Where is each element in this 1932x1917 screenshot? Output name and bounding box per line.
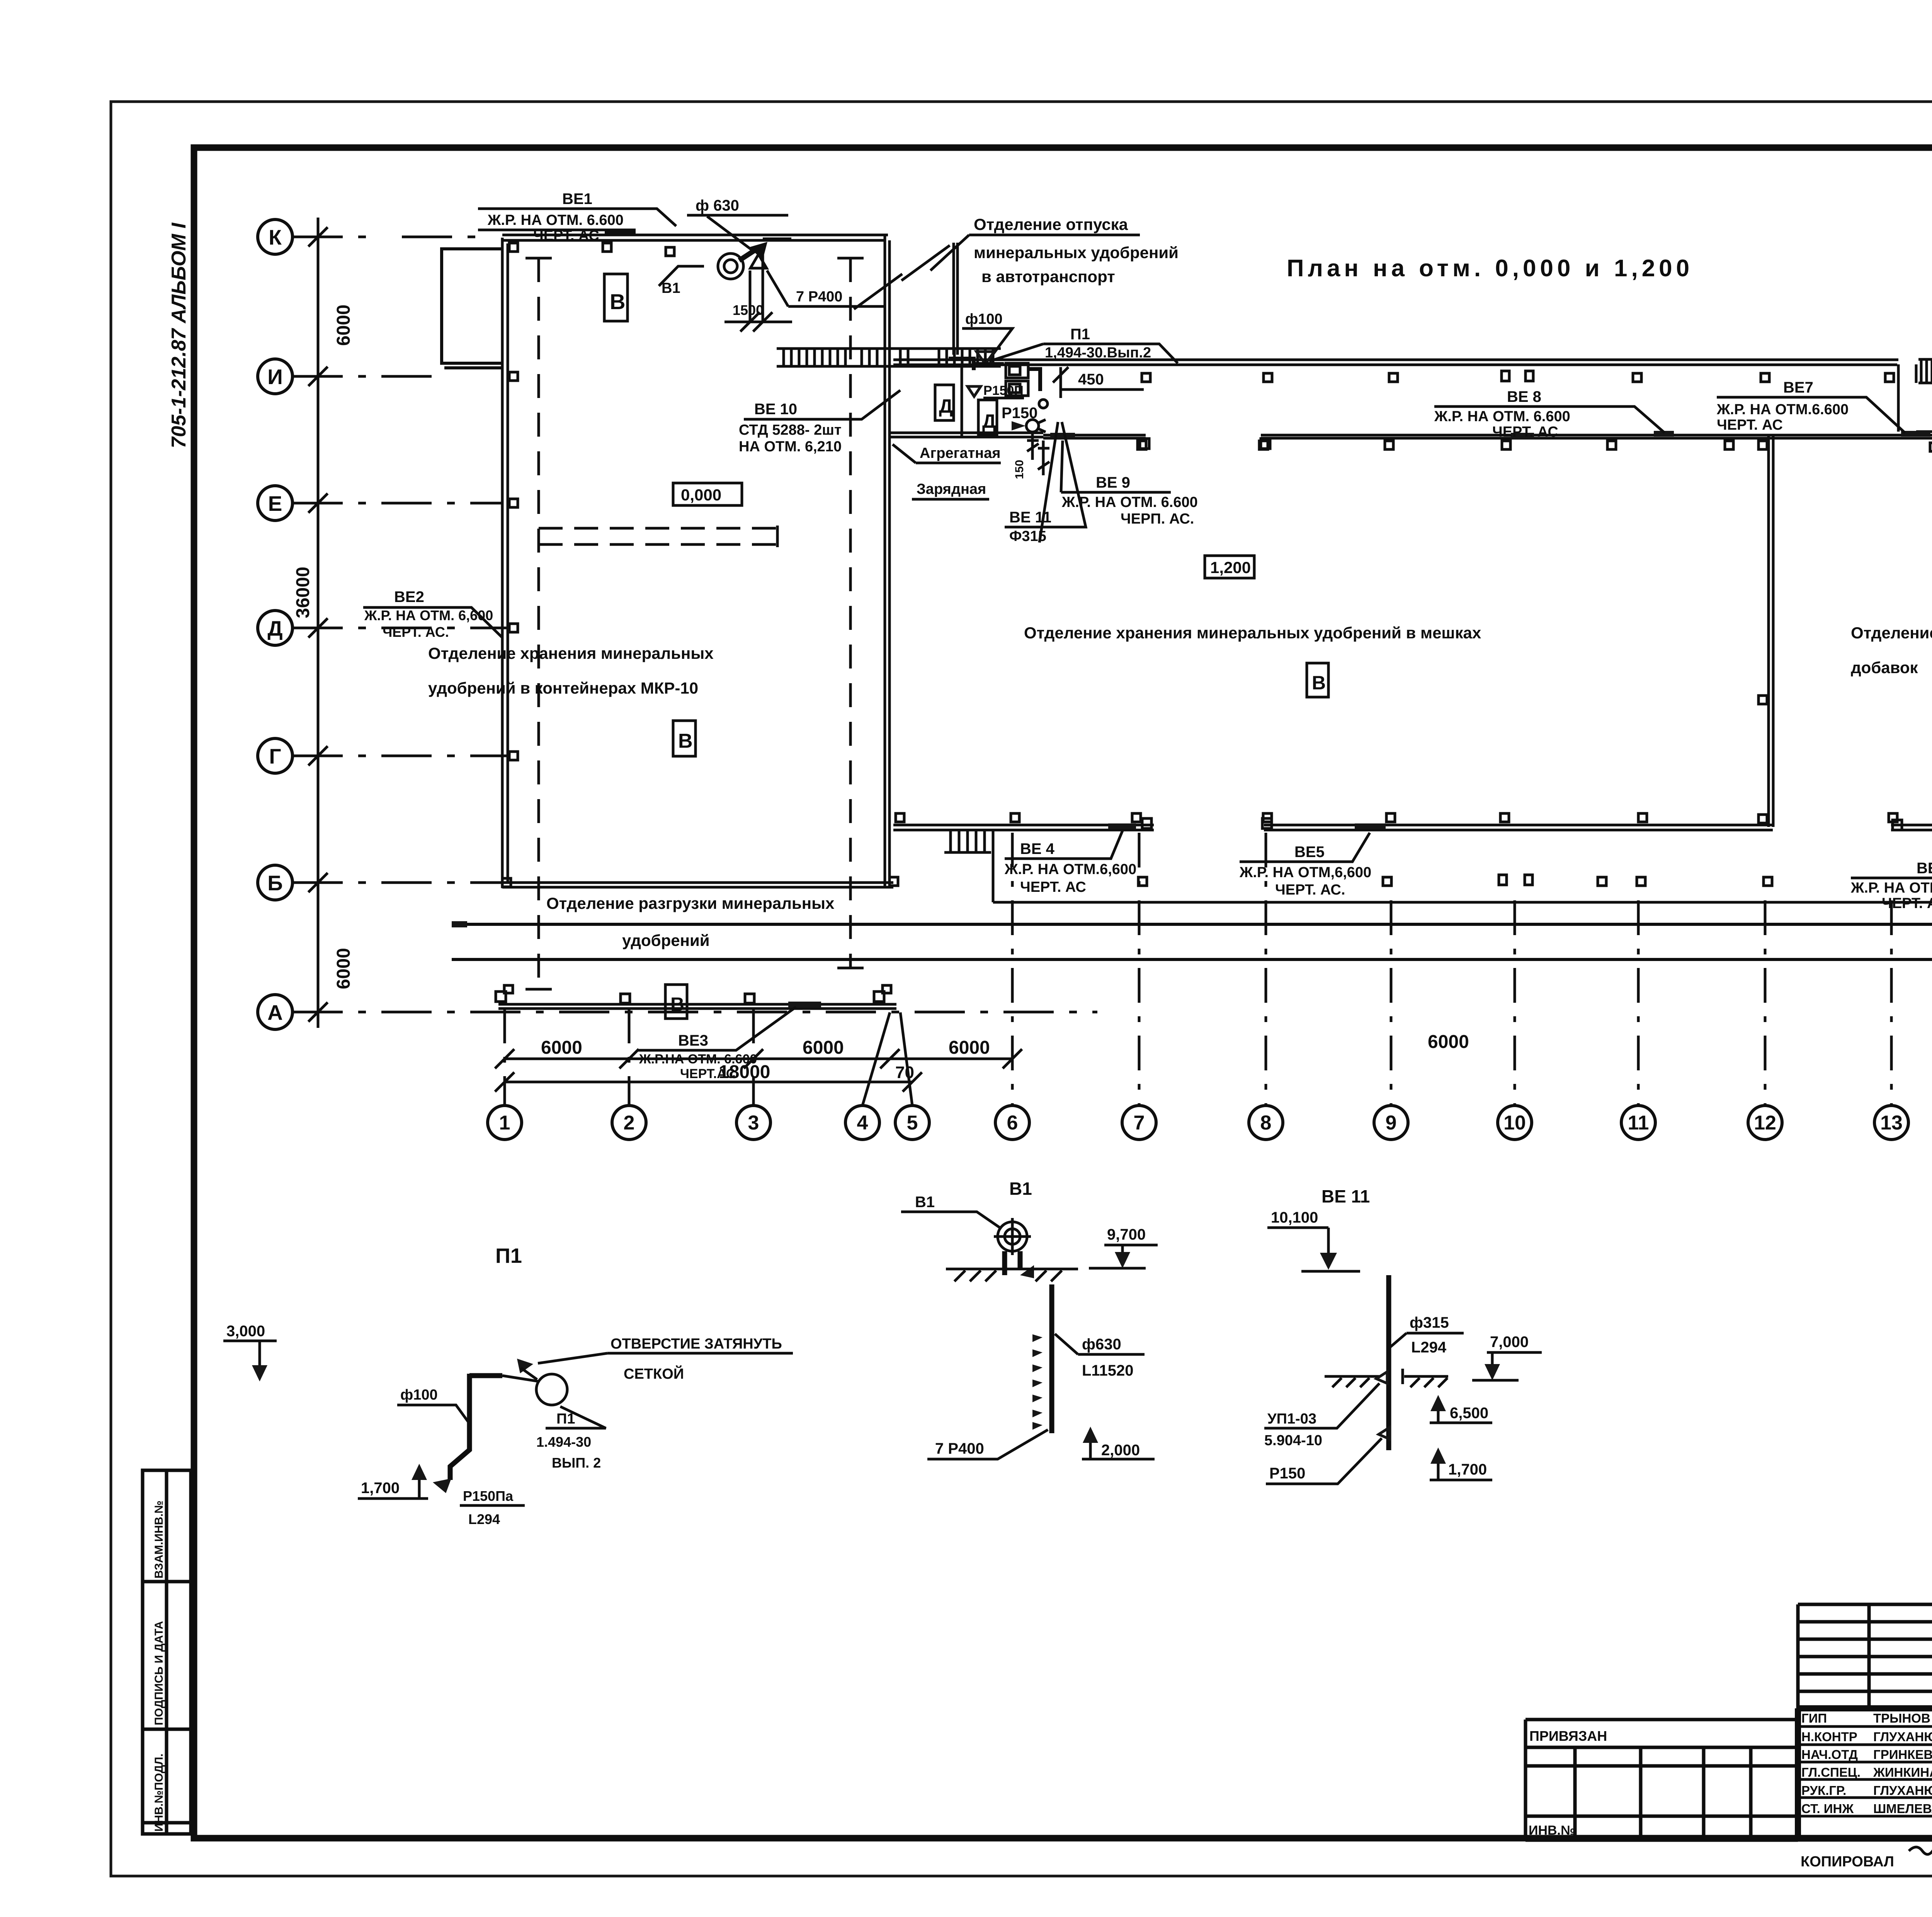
door end columns [1140,439,1149,449]
svg-text:8: 8 [1260,1112,1272,1134]
svg-text:5: 5 [907,1112,918,1134]
dashed gate line 1 [537,258,540,989]
svg-text:ЧЕРТ. АС.: ЧЕРТ. АС. [383,624,449,640]
axis line A [293,1011,1097,1014]
svg-text:Д: Д [267,616,282,640]
svg-text:К: К [269,225,282,249]
lower platform edge [993,830,1932,902]
label R150 [1266,1427,1389,1484]
svg-text:П1: П1 [495,1244,522,1267]
dashed gate line 2 [849,258,852,968]
svg-text:9,700: 9,700 [1107,1226,1146,1243]
bottom dim line 2 [505,1081,1932,1084]
axis leader lines 4,5 converge [862,1012,912,1106]
svg-text:3: 3 [748,1112,759,1134]
platform columns [1138,441,1146,449]
svg-text:7: 7 [1134,1112,1145,1134]
roof fan symbol [994,1218,1034,1278]
canopy grille BE3 [788,1002,821,1008]
svg-text:ИНВ.№: ИНВ.№ [1529,1823,1575,1838]
svg-text:ВЕ2: ВЕ2 [394,589,424,606]
label B box (bags) [1307,663,1328,697]
svg-text:Р150П: Р150П [983,383,1024,398]
label B box (dispensing top) [604,274,628,321]
svg-text:6: 6 [1007,1112,1018,1134]
svg-text:ф630: ф630 [1082,1336,1121,1353]
elevation 7.000 [1472,1334,1542,1380]
duct P1 [450,1374,502,1480]
axis circle E [258,486,293,520]
axis circle G [258,738,293,773]
svg-text:ЧЕРТ. АС: ЧЕРТ. АС [1492,424,1558,440]
label BE2 [363,589,502,640]
svg-text:В: В [610,289,625,314]
svg-text:1,200: 1,200 [1210,558,1251,577]
east wall left block [885,235,889,887]
svg-text:ЧЕРТ.АС: ЧЕРТ.АС [680,1067,735,1081]
svg-text:3,000: 3,000 [226,1323,265,1340]
label BE5 [1239,833,1371,898]
svg-text:7,000: 7,000 [1490,1334,1529,1351]
DETAIL P1 [223,1244,793,1527]
svg-text:ЖИНКИНА: ЖИНКИНА [1873,1765,1932,1779]
svg-text:Ж.Р. НА ОТМ. 6,600: Ж.Р. НА ОТМ. 6,600 [364,607,493,623]
ground hatch left [1325,1376,1380,1387]
svg-text:Отделение отпуска: Отделение отпуска [974,215,1128,233]
svg-text:ВЕ 4: ВЕ 4 [1020,840,1055,857]
svg-text:ЧЕРТ. АС.: ЧЕРТ. АС. [1275,882,1345,898]
svg-text:минеральных удобрений: минеральных удобрений [974,243,1179,262]
svg-text:НА ОТМ. 6,210: НА ОТМ. 6,210 [739,439,842,455]
elevation 2.000 [1082,1427,1155,1459]
axis circle I [258,359,293,394]
stairs hatch bottom [944,830,991,852]
svg-text:5.904-10: 5.904-10 [1264,1432,1322,1449]
inner thick frame [194,148,1932,1838]
svg-text:7 Р400: 7 Р400 [935,1440,984,1457]
elevation 3.000 [223,1323,277,1381]
rail line 1 [452,923,1932,926]
svg-text:ВЕ7: ВЕ7 [1783,379,1813,396]
svg-text:СЕТКОЙ: СЕТКОЙ [624,1365,684,1382]
label f630 L11520 [1055,1334,1145,1379]
svg-text:ф315: ф315 [1410,1314,1449,1331]
west annex notch [442,249,502,368]
svg-text:Отделение хранения минеральн: Отделение хранения минеральных удобрений… [1024,624,1481,642]
valve circle [1039,400,1048,408]
axis circle A [258,995,293,1029]
svg-text:70: 70 [895,1063,914,1082]
svg-text:В: В [678,730,693,752]
main block rows [1798,1726,1932,1816]
label f100 detail [397,1387,468,1422]
svg-text:удобрений: удобрений [622,931,710,949]
bottom wall columns below [889,877,898,886]
svg-text:добавок: добавок [1851,658,1918,677]
svg-text:СТД 5288- 2шт: СТД 5288- 2шт [739,422,842,438]
partition columns [1759,441,1767,449]
svg-text:1,700: 1,700 [1448,1461,1487,1478]
right overhang [1916,383,1932,432]
small fan symbol [1012,420,1046,432]
fan V1 plan symbol [659,239,792,332]
svg-text:ЧЕРТ. АС: ЧЕРТ. АС [1882,895,1932,912]
label Agregatnaya [893,444,1001,499]
top wall main hall [893,360,1898,365]
elevation 9.700 [1089,1226,1158,1268]
vent unit boxes [1006,363,1028,378]
svg-text:В1: В1 [1009,1179,1032,1199]
svg-text:705-1-212.87 АЛЬБОМ I: 705-1-212.87 АЛЬБОМ I [168,222,190,448]
axis circle B(left) [258,865,293,900]
svg-text:ЧЕРТ. АС: ЧЕРТ. АС [1717,417,1783,433]
upper revision table [1798,1604,1932,1839]
svg-text:НАЧ.ОТД: НАЧ.ОТД [1801,1747,1858,1762]
svg-text:РУК.ГР.: РУК.ГР. [1801,1783,1846,1798]
svg-text:Д: Д [982,410,996,432]
svg-text:В1: В1 [915,1194,935,1211]
axis circle K [258,219,293,254]
label BE7 [1716,379,1905,433]
names column [1873,1711,1932,1816]
bottom wall main hall [893,825,1932,830]
label BE1 [478,191,676,244]
svg-text:КОПИРОВАЛ: КОПИРОВАЛ [1801,1854,1894,1870]
thick duct strokes [949,359,1040,391]
LEFT AXES [258,218,1097,1029]
svg-text:Г: Г [269,744,281,768]
ground line V1 [946,1269,1078,1281]
intake flag [517,1359,533,1373]
label R150Pa [460,1488,525,1527]
outlet flag [433,1478,451,1493]
ground hatch right [1403,1369,1448,1387]
svg-text:В: В [670,993,684,1015]
svg-text:ГЛ.СПЕЦ.: ГЛ.СПЕЦ. [1801,1765,1861,1779]
svg-text:Ж.Р.НА ОТМ. 6.600: Ж.Р.НА ОТМ. 6.600 [639,1052,757,1067]
svg-text:ПОДПИСЬ И ДАТА: ПОДПИСЬ И ДАТА [153,1621,165,1725]
west wall left block [502,238,508,886]
axis line I [293,375,440,378]
stairs hatch top center [777,349,1001,366]
left dimension line [317,218,320,1028]
svg-text:1: 1 [499,1112,510,1134]
svg-text:36000: 36000 [293,567,313,618]
label BE6 [1850,834,1932,912]
svg-text:ШМЕЛЕВА: ШМЕЛЕВА [1873,1801,1932,1816]
svg-text:7 Р400: 7 Р400 [796,289,842,305]
label BE4 [1004,831,1136,895]
platform edge line [1043,435,1932,438]
label BE10 [739,390,900,455]
svg-text:ЧЕРП. АС.: ЧЕРП. АС. [1121,511,1194,527]
left wall columns [509,243,518,252]
svg-text:1.494-30: 1.494-30 [536,1434,591,1450]
svg-text:ИНВ.№ПОДЛ.: ИНВ.№ПОДЛ. [153,1754,165,1832]
svg-text:1,700: 1,700 [361,1480,400,1497]
MACHINERY CLUSTER [889,359,1049,479]
svg-text:ПРИВЯЗАН: ПРИВЯЗАН [1529,1728,1607,1744]
svg-text:Отделение хранения минеральных: Отделение хранения минеральных [428,644,714,662]
label B box (left block) [673,721,696,756]
svg-text:ВЕ3: ВЕ3 [678,1032,708,1049]
overhang stairs hatch [1918,359,1932,383]
wall grilles (vent louvres) [452,431,1932,927]
svg-text:6000: 6000 [333,948,354,989]
label 7R400 [927,1430,1048,1459]
svg-text:П1: П1 [1070,326,1090,343]
svg-text:Б: Б [267,871,283,895]
middle vertical wall [954,243,957,355]
svg-text:Ж.Р. НА ОТМ. 6.600: Ж.Р. НА ОТМ. 6.600 [1850,880,1932,896]
svg-text:ф 630: ф 630 [696,197,739,214]
label f315 L294 [1390,1314,1464,1356]
left attachment strip boxes [143,1470,191,1834]
svg-text:В1: В1 [662,280,680,296]
leader label V1 [901,1194,1002,1229]
svg-text:L11520: L11520 [1082,1362,1133,1379]
svg-text:И: И [267,365,283,389]
svg-text:6000: 6000 [803,1038,844,1058]
svg-text:ГЛУХАНЮК: ГЛУХАНЮК [1873,1730,1932,1744]
svg-text:удобрений в контейнерах МКР-10: удобрений в контейнерах МКР-10 [428,679,698,697]
svg-text:ВЕ5: ВЕ5 [1294,844,1325,861]
svg-text:ВЗАМ.ИНВ.№: ВЗАМ.ИНВ.№ [153,1500,165,1579]
roles column [1801,1711,1861,1816]
svg-text:Р150: Р150 [1269,1465,1305,1482]
canopy at axis A [498,1004,896,1009]
svg-text:ТРЫНОВ: ТРЫНОВ [1873,1711,1930,1725]
DETAIL V1 [901,1179,1158,1459]
top wall columns [603,243,611,252]
svg-text:0,000: 0,000 [681,486,721,504]
D box 2 [978,400,997,435]
top wall left block [502,235,888,240]
label otverstie [538,1336,793,1382]
svg-text:Н.КОНТР: Н.КОНТР [1801,1730,1857,1744]
svg-text:Ж.Р. НА ОТМ,6,600: Ж.Р. НА ОТМ,6,600 [1239,864,1371,881]
svg-text:ВЕ1: ВЕ1 [562,191,592,208]
label 450 [1053,367,1144,398]
svg-text:L294: L294 [468,1511,500,1527]
svg-text:ОТВЕРСТИЕ ЗАТЯНУТЬ: ОТВЕРСТИЕ ЗАТЯНУТЬ [611,1336,782,1352]
svg-text:ВЕ 8: ВЕ 8 [1507,388,1541,405]
COLUMN SQUARES [502,243,1932,887]
label storage MKR-10 [428,644,714,697]
label BE11 plan [1005,422,1086,544]
dim ticks [308,227,328,1022]
label R150P [968,383,1024,398]
riser tick [1027,433,1039,460]
svg-text:А: А [267,1000,283,1024]
break diagonal marks [854,245,950,309]
label dispensing dept [930,215,1179,286]
svg-text:1,494-30.Вып.2: 1,494-30.Вып.2 [1045,345,1151,361]
svg-text:2,000: 2,000 [1101,1442,1140,1459]
dim ticks bottom [495,1049,1932,1092]
svg-text:ф100: ф100 [400,1387,438,1403]
label 7P400 [767,270,885,306]
svg-text:Ж.Р. НА ОТМ.6.600: Ж.Р. НА ОТМ.6.600 [1716,401,1849,418]
canopy columns [496,985,891,1003]
svg-text:11: 11 [1628,1112,1649,1134]
svg-text:ГИП: ГИП [1801,1711,1827,1725]
svg-text:10,100: 10,100 [1271,1209,1318,1226]
svg-text:4: 4 [857,1112,868,1134]
D box 1 [935,385,954,420]
fan circle P1 [536,1374,567,1405]
partition wall [1769,435,1773,827]
axis circles 1-15 [488,1106,1932,1140]
label feed additives dept [1851,624,1932,677]
svg-text:Р150Па: Р150Па [463,1488,514,1504]
axis line G [293,755,510,757]
svg-text:УП1-03: УП1-03 [1267,1411,1316,1427]
TITLE BLOCK [1526,1604,1932,1870]
svg-text:Ж.Р. НА ОТМ.6,600: Ж.Р. НА ОТМ.6,600 [1004,861,1136,878]
label 0.000 [673,483,742,505]
svg-text:150: 150 [1013,460,1026,479]
svg-text:ГРИНКЕВИЧ: ГРИНКЕВИЧ [1873,1747,1932,1762]
svg-text:Ж.Р. НА ОТМ. 6.600: Ж.Р. НА ОТМ. 6.600 [1434,408,1570,425]
svg-text:6000: 6000 [333,304,354,346]
privyazan box [1526,1720,1798,1840]
svg-text:1500: 1500 [733,302,764,318]
svg-text:Ж.Р. НА ОТМ. 6.600: Ж.Р. НА ОТМ. 6.600 [487,212,624,228]
svg-text:В: В [1312,672,1326,694]
zigzag brackets [1032,1334,1043,1430]
svg-text:L294: L294 [1411,1339,1447,1356]
svg-text:ГЛУХАНЮК: ГЛУХАНЮК [1873,1783,1932,1798]
top-right wall step [1898,364,1916,432]
svg-text:План на отм. 0,000 и 1,200: План на отм. 0,000 и 1,200 [1287,255,1693,282]
svg-text:ВЕ 9: ВЕ 9 [1096,474,1130,491]
bottom wall left block [502,883,893,887]
svg-text:ВЕ 10: ВЕ 10 [754,401,797,418]
axis line E [293,502,502,505]
duct VE11 [1386,1275,1391,1450]
roof line BE1 duct [478,230,636,233]
svg-text:Зарядная: Зарядная [917,481,986,497]
label BE9 [1061,441,1198,527]
svg-text:ВЫП. 2: ВЫП. 2 [552,1455,601,1471]
svg-text:Отделение разгрузки минеральны: Отделение разгрузки минеральных [546,894,835,912]
svg-text:ВЕ6: ВЕ6 [1917,860,1932,877]
axis line K [293,236,483,238]
svg-text:450: 450 [1078,371,1104,388]
svg-text:Отделение хранения кормовых: Отделение хранения кормовых [1851,624,1932,642]
label BE3 [638,1007,796,1081]
elevation 6.500 [1430,1395,1492,1423]
elevation 1.700 [358,1464,428,1499]
svg-text:ф100: ф100 [965,311,1003,327]
rail line 2 [452,958,1932,961]
label P1 index [536,1407,606,1471]
label UP1-03 [1264,1372,1387,1449]
svg-text:в автотранспорт: в автотранспорт [981,267,1115,286]
interior wall vertical [961,365,963,436]
svg-text:12: 12 [1754,1112,1776,1134]
bottom wall columns above [896,813,904,822]
svg-text:Е: Е [268,492,282,515]
BUILDING WALLS [442,230,1932,1009]
label B box (unloading) [665,985,687,1019]
dashed ramp strip [539,528,777,544]
label 1.200 [1205,556,1254,578]
axis line D [293,627,510,629]
label f630 [687,197,788,251]
triangle symbol P1 [976,352,994,364]
bottom dim line 1 [505,1058,1012,1060]
svg-text:2: 2 [624,1112,635,1134]
BOTTOM AXES [488,833,1932,1140]
axis lines 6-15 [1012,833,1932,1106]
svg-text:СТ. ИНЖ: СТ. ИНЖ [1801,1801,1854,1816]
svg-text:Д: Д [939,395,953,417]
svg-text:10: 10 [1503,1112,1526,1134]
interior wall horizontal [889,433,1043,437]
duct V1 vertical [1049,1284,1054,1433]
svg-text:6000: 6000 [541,1038,582,1058]
label f100 [962,311,1012,359]
label BE8 [1434,388,1665,440]
DETAIL VE11 [1264,1186,1542,1484]
label P1 leader [989,326,1178,363]
svg-text:Агрегатная: Агрегатная [920,445,1000,461]
axis leader lines 1-3 [505,1009,753,1106]
main block outer [1798,1670,1932,1839]
axis circle D [258,611,293,645]
axis line B(left) [293,881,506,884]
label unloading dept [546,894,835,949]
svg-text:ЧЕРТ. АС: ЧЕРТ. АС [1020,879,1086,895]
elevation 1.700 [1430,1448,1492,1480]
svg-text:13: 13 [1880,1112,1903,1134]
svg-text:6000: 6000 [949,1038,990,1058]
svg-text:9: 9 [1386,1112,1397,1134]
svg-text:ЧЕРТ. АС: ЧЕРТ. АС [533,228,599,244]
svg-text:ВЕ 11: ВЕ 11 [1321,1186,1370,1206]
elevation 10.100 [1267,1209,1360,1271]
svg-text:6000: 6000 [1428,1032,1469,1052]
svg-text:6,500: 6,500 [1450,1405,1488,1422]
